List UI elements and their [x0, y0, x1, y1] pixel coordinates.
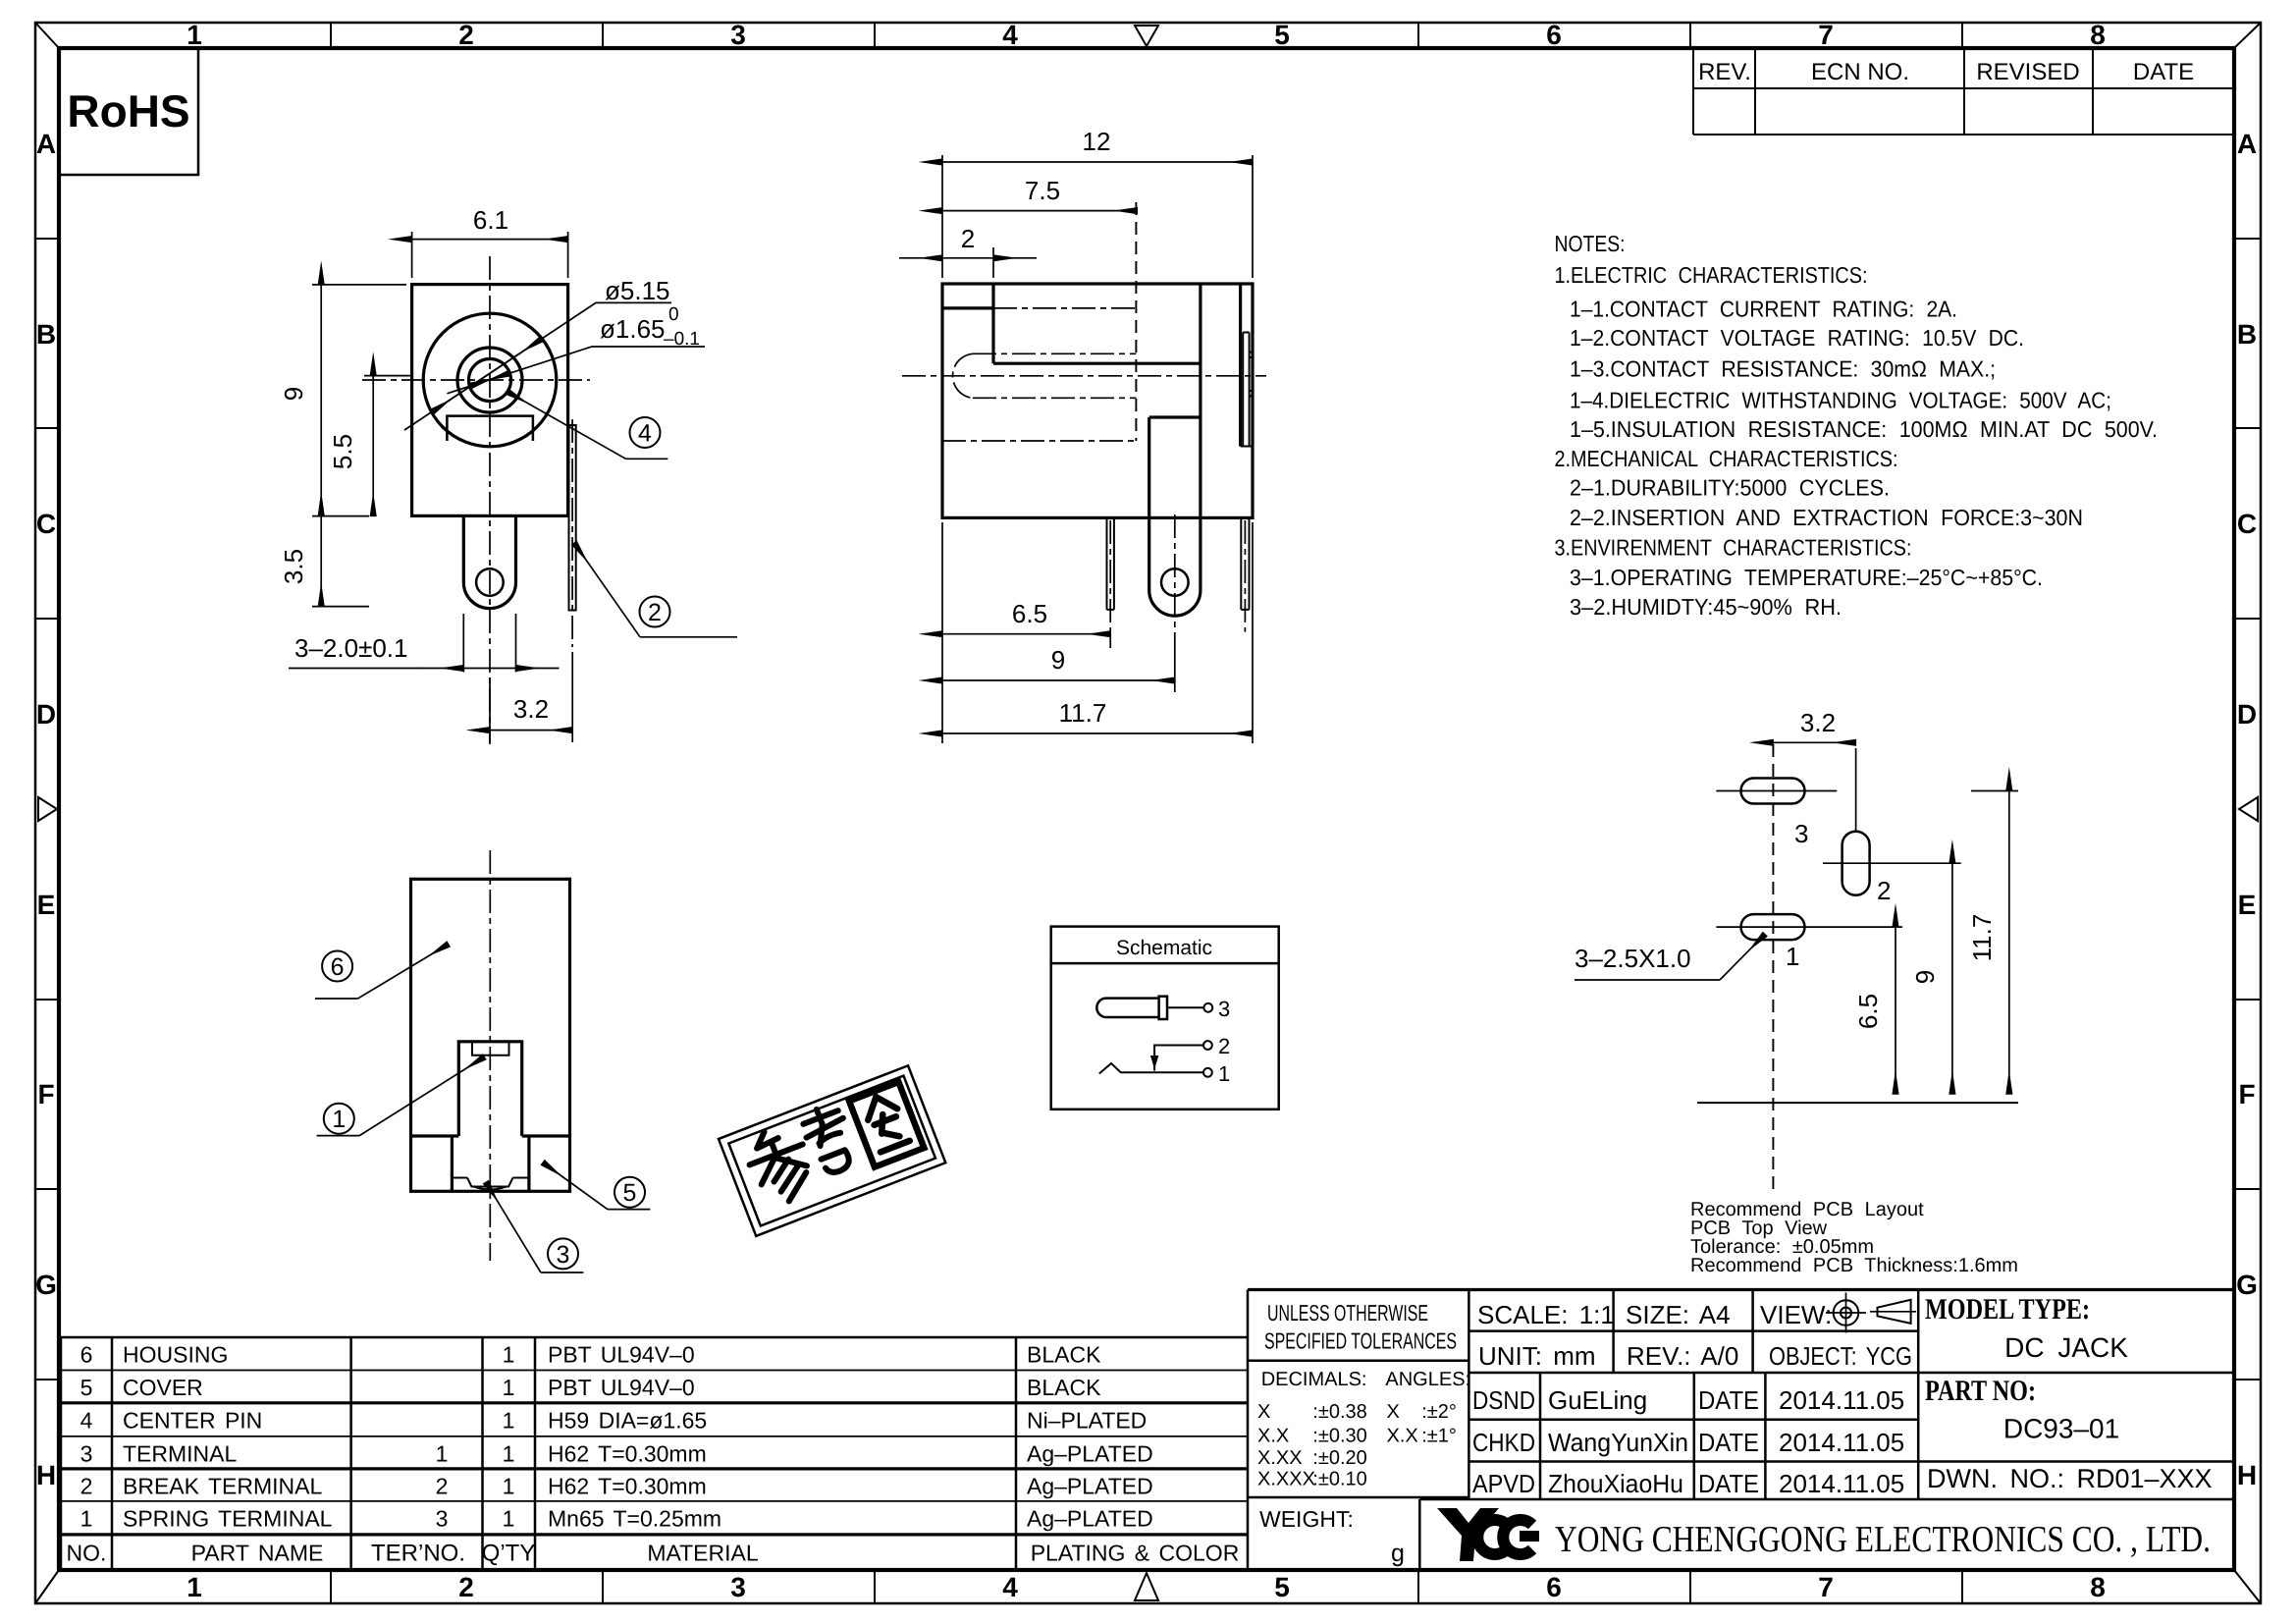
pad 3: [1741, 779, 1805, 804]
center pin tip bottom view: [467, 1178, 513, 1190]
pcb bottom reference line: [1697, 1102, 2018, 1104]
svg-text:3–1.OPERATING TEMPERATURE:–25: 3–1.OPERATING TEMPERATURE:–25°C~+85°C.: [1570, 565, 2043, 590]
svg-text:Ag–PLATED: Ag–PLATED: [1027, 1473, 1153, 1498]
svg-text:2–1.DURABILITY:5000 CYCLES.: 2–1.DURABILITY:5000 CYCLES.: [1570, 475, 1890, 501]
pcb notes text: [1690, 1199, 2018, 1276]
right pin side view: [1241, 517, 1249, 610]
svg-text:B: B: [36, 319, 56, 350]
svg-text:B: B: [2237, 319, 2257, 350]
svg-text:NOTES:: NOTES:: [1555, 231, 1626, 256]
pin 2 switch arrow: [1150, 1056, 1158, 1069]
svg-text:6: 6: [1546, 20, 1562, 50]
side view horizontal centerline: [902, 375, 1266, 377]
svg-text:6.1: 6.1: [473, 205, 508, 235]
front view housing body: [412, 285, 568, 516]
centering mark bottom: [1135, 1573, 1158, 1600]
side view top-left notch: [942, 284, 993, 363]
pad 3 centerline: [1716, 790, 1837, 792]
svg-text:A: A: [36, 129, 56, 159]
barrel boss circle: [457, 348, 522, 412]
svg-text:1–4.DIELECTRIC WITHSTANDING: 1–4.DIELECTRIC WITHSTANDING VOLTAGE: 500…: [1570, 388, 2111, 413]
svg-text:3: 3: [730, 1572, 746, 1602]
svg-text:SIZE: A4: SIZE: A4: [1626, 1300, 1731, 1329]
svg-text:DATE: DATE: [1698, 1428, 1759, 1457]
lug hole front: [476, 568, 504, 596]
dim 9 side: [942, 679, 1175, 681]
lug centerline: [1174, 514, 1176, 640]
dim 3.2: [490, 730, 572, 731]
svg-text:MATERIAL: MATERIAL: [647, 1540, 759, 1565]
svg-text:2: 2: [436, 1473, 449, 1498]
svg-text:ANGLES:: ANGLES:: [1385, 1369, 1470, 1390]
pin 1 wire with spring arm: [1099, 1063, 1203, 1074]
svg-text:E: E: [2238, 890, 2257, 920]
svg-text:2: 2: [458, 1572, 474, 1602]
dim 9 pcb: [1951, 863, 1953, 1094]
dim 6.1 extension lines: [412, 232, 568, 278]
svg-text:H: H: [36, 1460, 56, 1490]
barrel outer circle o5.15: [423, 313, 557, 447]
side view cover slot edge: [993, 362, 1201, 365]
title block frame: [1248, 1288, 2234, 1291]
svg-text:6: 6: [80, 1342, 93, 1368]
svg-text:3.2: 3.2: [513, 694, 549, 724]
svg-text:DECIMALS:: DECIMALS:: [1261, 1369, 1367, 1390]
callout circle 2 break terminal: [640, 597, 670, 627]
notes text block: [1555, 231, 2159, 620]
svg-text:1–3.CONTACT RESISTANCE: 30mΩ: 1–3.CONTACT RESISTANCE: 30mΩ MAX.;: [1570, 356, 1996, 382]
svg-text:1–5.INSULATION RESISTANCE: 1: 1–5.INSULATION RESISTANCE: 100MΩ MIN.AT …: [1570, 416, 2158, 442]
dim 6.5: [942, 633, 1110, 635]
hidden cavity bottom dash-dot: [942, 440, 1136, 442]
svg-text:DC JACK: DC JACK: [2004, 1332, 2128, 1363]
svg-text:1: 1: [1218, 1061, 1230, 1086]
svg-text:BLACK: BLACK: [1027, 1342, 1101, 1368]
side ext lines top: [942, 155, 1253, 278]
svg-text:F: F: [37, 1079, 54, 1110]
svg-text:7: 7: [1818, 1572, 1834, 1602]
dim 2: [899, 257, 942, 259]
BOM table frame: [61, 1336, 1248, 1339]
svg-text:2: 2: [458, 20, 474, 50]
svg-text:1: 1: [503, 1375, 515, 1400]
svg-text:H59 DIA=ø1.65: H59 DIA=ø1.65: [548, 1407, 707, 1433]
svg-text:PART NO:: PART NO:: [1925, 1375, 2036, 1407]
svg-text:2: 2: [648, 599, 662, 626]
svg-text:TER’NO.: TER’NO.: [371, 1540, 465, 1566]
svg-text:6: 6: [1546, 1572, 1562, 1602]
dim 9: [320, 285, 322, 516]
svg-text:SPECIFIED TOLERANCES: SPECIFIED TOLERANCES: [1264, 1328, 1457, 1354]
svg-text:4: 4: [1002, 1572, 1018, 1602]
svg-text:X: X: [1387, 1401, 1400, 1423]
svg-text:X.XXX: X.XXX: [1257, 1469, 1315, 1490]
svg-text:REVISED: REVISED: [1976, 59, 2079, 85]
reference stamp rotated frame: [719, 1065, 945, 1236]
svg-text:2: 2: [1877, 876, 1891, 905]
zone letters right: [2236, 129, 2258, 1490]
svg-text:DWN. NO.: RD01–XXX: DWN. NO.: RD01–XXX: [1927, 1464, 2213, 1493]
svg-text:G: G: [35, 1270, 57, 1300]
svg-text:1: 1: [436, 1440, 449, 1466]
lug hole side: [1161, 568, 1189, 596]
svg-text:11.7: 11.7: [1967, 914, 1997, 962]
svg-text:CENTER PIN: CENTER PIN: [123, 1407, 262, 1433]
center pin circle o1.65: [469, 359, 511, 402]
svg-text:3: 3: [1794, 819, 1808, 848]
svg-text:TERMINAL: TERMINAL: [123, 1440, 238, 1466]
svg-text:Mn65 T=0.25mm: Mn65 T=0.25mm: [548, 1505, 721, 1531]
BOM rows: [67, 1342, 1240, 1567]
svg-text:ZhouXiaoHu: ZhouXiaoHu: [1548, 1469, 1683, 1498]
svg-text:11.7: 11.7: [1059, 698, 1107, 728]
svg-text:Recommend PCB Thickness:1.6mm: Recommend PCB Thickness:1.6mm: [1690, 1255, 2018, 1276]
svg-text:5: 5: [623, 1179, 637, 1207]
plug symbol: [1096, 999, 1158, 1017]
svg-text:C: C: [2237, 509, 2257, 539]
svg-text:H: H: [2237, 1460, 2257, 1490]
svg-text::±2°: :±2°: [1421, 1401, 1457, 1423]
svg-text:1: 1: [503, 1407, 515, 1433]
svg-text:3: 3: [730, 20, 746, 50]
svg-text:X.X: X.X: [1387, 1425, 1418, 1446]
svg-text:COVER: COVER: [123, 1375, 203, 1400]
svg-text:9: 9: [279, 387, 308, 401]
left pin centerline: [1109, 520, 1111, 632]
svg-text:3: 3: [557, 1241, 570, 1269]
barrel bore left arc: [953, 353, 973, 398]
pad 2 centerline: [1823, 862, 1961, 864]
svg-text:BLACK: BLACK: [1027, 1375, 1101, 1400]
svg-text:D: D: [36, 699, 56, 730]
svg-text:1: 1: [80, 1505, 93, 1531]
svg-text::±1°: :±1°: [1421, 1425, 1457, 1446]
svg-text:SPRING TERMINAL: SPRING TERMINAL: [123, 1505, 333, 1531]
svg-text:4: 4: [1002, 20, 1018, 50]
front view vertical centerline: [489, 256, 491, 744]
svg-text:4: 4: [80, 1407, 93, 1433]
svg-text:H62 T=0.30mm: H62 T=0.30mm: [548, 1440, 707, 1466]
pcb ext line for 3.2: [1855, 748, 1857, 831]
svg-text:6.5: 6.5: [1853, 994, 1883, 1029]
svg-text:1.ELECTRIC CHARACTERISTICS:: 1.ELECTRIC CHARACTERISTICS:: [1555, 262, 1868, 288]
dim 11.7: [942, 732, 1253, 734]
pad 1 centerline: [1716, 926, 1902, 928]
revision table: [1693, 48, 2234, 135]
svg-text:1: 1: [503, 1505, 515, 1531]
svg-text:PBT UL94V–0: PBT UL94V–0: [548, 1375, 695, 1400]
svg-text:VIEW:: VIEW:: [1760, 1300, 1832, 1329]
svg-text:A: A: [2237, 129, 2257, 159]
svg-text:5: 5: [80, 1375, 93, 1400]
pin 2 terminal circle: [1203, 1041, 1212, 1050]
stamp character KAO: [798, 1102, 860, 1178]
break terminal plate edge view: [569, 425, 576, 611]
dim 3.2 pcb: [1773, 741, 1855, 743]
plug ferrule: [1159, 997, 1167, 1019]
svg-text:9: 9: [1051, 645, 1065, 675]
hidden cavity top dash-dot: [993, 307, 1136, 309]
break terminal contact nubs: [1250, 352, 1254, 397]
callout circle 3 terminal: [548, 1238, 578, 1269]
svg-text:YONG CHENGGONG ELECTRONICS CO.: YONG CHENGGONG ELECTRONICS CO. , LTD.: [1555, 1519, 2211, 1560]
svg-text:WEIGHT:: WEIGHT:: [1259, 1506, 1354, 1532]
svg-text:5.5: 5.5: [328, 434, 357, 469]
svg-text:BREAK TERMINAL: BREAK TERMINAL: [123, 1473, 322, 1498]
dim 5.5 extension line: [364, 375, 412, 377]
svg-text:2014.11.05: 2014.11.05: [1779, 1469, 1904, 1498]
side ext lines bottom: [941, 522, 943, 743]
side view housing outline: [942, 284, 1253, 517]
svg-text:SCALE: 1:1: SCALE: 1:1: [1477, 1300, 1615, 1329]
svg-text:GuELing: GuELing: [1548, 1385, 1647, 1415]
bottom view centerline: [489, 850, 491, 1261]
svg-text:1: 1: [187, 20, 202, 50]
svg-text:D: D: [2237, 699, 2257, 730]
svg-text:1: 1: [503, 1473, 515, 1498]
svg-text::±0.20: :±0.20: [1312, 1447, 1366, 1469]
pin 3 wire: [1167, 1006, 1203, 1008]
hidden cavity end dashed: [1135, 202, 1137, 441]
svg-text:1–1.CONTACT CURRENT RATING:: 1–1.CONTACT CURRENT RATING: 2A.: [1570, 297, 1957, 322]
break terminal rear plate: [1243, 333, 1249, 447]
tolerance box text: [1264, 1300, 1457, 1354]
svg-text:2014.11.05: 2014.11.05: [1779, 1428, 1904, 1457]
svg-text:X: X: [1257, 1401, 1270, 1423]
svg-text:1: 1: [332, 1106, 346, 1133]
svg-text:3: 3: [1218, 997, 1230, 1021]
pad 2: [1842, 832, 1870, 895]
svg-text:DATE: DATE: [2133, 59, 2194, 85]
svg-text:WangYunXin: WangYunXin: [1548, 1428, 1688, 1457]
svg-text:1: 1: [503, 1440, 515, 1466]
svg-text:Q’TY: Q’TY: [482, 1540, 536, 1566]
dim 6.1: [412, 239, 568, 241]
svg-text:DATE: DATE: [1698, 1385, 1759, 1415]
left pin side view: [1107, 517, 1114, 610]
svg-text:6: 6: [331, 953, 345, 981]
zone numbers top: [187, 20, 2106, 50]
right pin centerline: [1244, 520, 1246, 632]
svg-text:UNLESS OTHERWISE: UNLESS OTHERWISE: [1267, 1300, 1428, 1326]
svg-text::±0.30: :±0.30: [1312, 1425, 1366, 1446]
dim 9 extension lines: [312, 285, 406, 516]
svg-text:PLATING & COLOR: PLATING & COLOR: [1031, 1540, 1240, 1565]
centering mark top: [1135, 26, 1158, 46]
svg-text:3.5: 3.5: [279, 549, 308, 584]
svg-text:DSND: DSND: [1472, 1385, 1535, 1415]
terminal lug side view: [1149, 417, 1201, 616]
svg-text:7: 7: [1818, 20, 1834, 50]
svg-text:APVD: APVD: [1472, 1469, 1535, 1498]
svg-text:DATE: DATE: [1698, 1469, 1759, 1498]
svg-text:3.ENVIRENMENT CHARACTERISTICS: 3.ENVIRENMENT CHARACTERISTICS:: [1555, 535, 1912, 561]
zone letters left: [35, 129, 57, 1490]
side view internal vertical division: [1199, 284, 1201, 517]
svg-text:3–2.5X1.0: 3–2.5X1.0: [1575, 944, 1691, 973]
spring terminal U cut: [458, 1042, 521, 1136]
schematic box: [1051, 927, 1279, 1110]
centering mark right: [2239, 797, 2258, 821]
svg-text:2014.11.05: 2014.11.05: [1779, 1385, 1904, 1415]
cover side notches: [452, 1136, 529, 1191]
svg-text:PART NAME: PART NAME: [191, 1540, 324, 1565]
svg-text:12: 12: [1083, 127, 1111, 156]
barrel bore dash-dot outline: [973, 353, 1136, 398]
cover joint line: [411, 1134, 570, 1137]
svg-text:g: g: [1391, 1540, 1405, 1567]
svg-text:1: 1: [1786, 942, 1799, 971]
side view rear vertical edge: [1239, 284, 1242, 447]
svg-text:Schematic: Schematic: [1116, 937, 1212, 959]
svg-text:DC93–01: DC93–01: [2003, 1414, 2119, 1444]
YCG logo: [1437, 1508, 1499, 1561]
svg-text:0: 0: [668, 304, 679, 325]
pin 1 terminal circle: [1203, 1068, 1212, 1077]
svg-text:2: 2: [961, 224, 975, 253]
svg-text:4: 4: [638, 420, 652, 448]
svg-text:E: E: [37, 890, 56, 920]
callout circle 1 spring terminal: [324, 1104, 354, 1134]
svg-text:MODEL TYPE:: MODEL TYPE:: [1925, 1293, 2090, 1326]
svg-text:Ag–PLATED: Ag–PLATED: [1027, 1505, 1153, 1531]
dim 6.5 pcb: [1895, 927, 1896, 1094]
svg-text:5: 5: [1274, 20, 1290, 50]
svg-text:2: 2: [80, 1473, 93, 1498]
pcb layout main centerline dashed: [1772, 744, 1774, 1196]
pin 3 terminal circle: [1203, 1003, 1212, 1012]
dim 3.5: [320, 516, 322, 607]
front view horizontal centerline: [362, 379, 590, 381]
svg-text:ECN NO.: ECN NO.: [1811, 59, 1909, 85]
bottom view housing body: [411, 879, 570, 1191]
svg-text:C: C: [36, 509, 56, 539]
break terminal plate centerline: [571, 419, 573, 647]
scale unit cells: [1472, 1300, 1912, 1498]
svg-text:5: 5: [1274, 1572, 1290, 1602]
view cone symbol: [1878, 1300, 1911, 1324]
svg-text::±0.38: :±0.38: [1312, 1401, 1366, 1423]
svg-text:Ag–PLATED: Ag–PLATED: [1027, 1440, 1153, 1466]
callout circle 5 cover: [614, 1177, 645, 1208]
svg-text:2.MECHANICAL CHARACTERISTICS:: 2.MECHANICAL CHARACTERISTICS:: [1555, 446, 1898, 471]
keyway slot: [447, 416, 533, 441]
zone numbers bottom: [187, 1572, 2106, 1602]
svg-text:F: F: [2238, 1079, 2255, 1110]
svg-text:3: 3: [436, 1505, 449, 1531]
svg-text:X.XX: X.XX: [1257, 1447, 1303, 1469]
callout circle 4 center pin: [630, 417, 661, 448]
svg-text:1: 1: [503, 1342, 515, 1368]
dim 3.2 extension lines: [490, 652, 572, 742]
svg-text:Ni–PLATED: Ni–PLATED: [1027, 1407, 1147, 1433]
side view rear step: [1241, 446, 1253, 448]
svg-text:G: G: [2236, 1270, 2258, 1300]
svg-text:REV.: REV.: [1698, 59, 1751, 85]
dim 11.7 pcb: [2008, 791, 2010, 1095]
svg-text:REV.: A/0: REV.: A/0: [1627, 1341, 1738, 1371]
stamp character CAN: [740, 1120, 820, 1210]
svg-text:1–2.CONTACT VOLTAGE RATING:: 1–2.CONTACT VOLTAGE RATING: 10.5V DC.: [1570, 325, 2024, 351]
svg-text:NO.: NO.: [67, 1540, 107, 1565]
bottom recess edge: [452, 1177, 529, 1179]
callout circle 6 housing: [322, 951, 352, 982]
svg-text:3.2: 3.2: [1800, 708, 1836, 737]
pin 2 wire: [1154, 1046, 1203, 1056]
svg-text:UNIT: mm: UNIT: mm: [1478, 1341, 1596, 1371]
svg-text:7.5: 7.5: [1025, 176, 1060, 205]
pcb ext line for 11.7: [1971, 790, 2018, 792]
svg-text:ø5.15: ø5.15: [605, 276, 670, 305]
stamp character TU: [849, 1082, 924, 1167]
svg-text:ø1.65: ø1.65: [600, 314, 666, 344]
svg-text:RoHS: RoHS: [67, 85, 189, 136]
svg-text:OBJECT: YCG: OBJECT: YCG: [1769, 1341, 1912, 1371]
svg-text:1: 1: [187, 1572, 202, 1602]
centering mark left: [38, 797, 57, 821]
dim 3.5 extension line: [312, 606, 369, 608]
dim 3-2.0+-0.1: [420, 668, 463, 670]
svg-text:HOUSING: HOUSING: [123, 1342, 228, 1368]
svg-text:8: 8: [2090, 20, 2106, 50]
dim 5.5: [372, 376, 374, 516]
svg-text:2: 2: [1218, 1034, 1230, 1058]
svg-text:H62 T=0.30mm: H62 T=0.30mm: [548, 1473, 707, 1498]
dim 7.5: [942, 210, 1138, 212]
svg-text:PBT UL94V–0: PBT UL94V–0: [548, 1342, 695, 1368]
svg-text:6.5: 6.5: [1012, 599, 1047, 628]
dim 3-2.0 extension lines: [463, 614, 515, 673]
spring terminal lip: [472, 1042, 509, 1056]
svg-text::±0.10: :±0.10: [1312, 1469, 1366, 1490]
first angle projection symbol: [1826, 1293, 1866, 1333]
svg-text:9: 9: [1910, 970, 1940, 984]
svg-text:8: 8: [2090, 1572, 2106, 1602]
RoHS box: [59, 48, 198, 175]
dim 12: [942, 161, 1253, 163]
schematic header line: [1051, 962, 1279, 965]
svg-text:3: 3: [80, 1440, 93, 1466]
spring terminal lug front: [463, 515, 515, 608]
svg-text:X.X: X.X: [1257, 1425, 1289, 1446]
svg-text:CHKD: CHKD: [1472, 1428, 1535, 1457]
svg-text:3–2.0±0.1: 3–2.0±0.1: [294, 633, 407, 663]
svg-text:2–2.INSERTION AND EXTRACTION: 2–2.INSERTION AND EXTRACTION FORCE:3~30N: [1570, 505, 2083, 530]
pad 1: [1741, 914, 1805, 940]
svg-text:3–2.HUMIDTY:45~90% RH.: 3–2.HUMIDTY:45~90% RH.: [1570, 594, 1842, 620]
